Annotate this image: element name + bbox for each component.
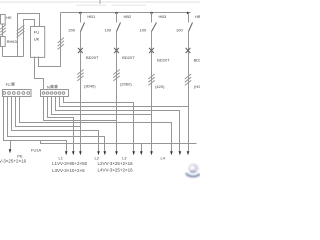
faint title smudge <box>76 5 106 7</box>
svg-text:V-3×25+2×16: V-3×25+2×16 <box>0 159 27 164</box>
svg-text:RH63: RH63 <box>7 39 18 44</box>
svg-text:FU1A: FU1A <box>31 148 42 153</box>
svg-text:HB1: HB1 <box>87 14 96 19</box>
fuse-switch FU box <box>31 27 45 58</box>
terminal strip FC box <box>3 90 32 97</box>
wire fan t2 <box>8 97 105 152</box>
breaker HB3 <box>151 13 153 23</box>
arrow feeder 1 <box>79 151 82 155</box>
3-phase ticks on chain <box>0 25 6 36</box>
arrow L4-2 <box>179 151 182 155</box>
sheet border center tick <box>99 0 101 4</box>
svg-text:HE: HE <box>6 15 12 20</box>
svg-text:(2060): (2060) <box>120 82 132 87</box>
arrow L2-1 <box>97 151 100 155</box>
svg-text:(3040): (3040) <box>84 84 96 89</box>
wire fan r5 <box>60 97 189 107</box>
node HB1 tap <box>79 12 81 14</box>
wire fan t4 <box>16 97 81 127</box>
cable ticks feeder 1 <box>77 70 83 81</box>
wire PE drop <box>10 141 12 150</box>
svg-text:FU: FU <box>34 30 39 35</box>
meter HE box <box>1 15 6 25</box>
bus bar <box>61 12 191 14</box>
fuse X feeder 3 <box>149 48 154 53</box>
node HB2 tap <box>115 12 117 14</box>
3-phase ticks on bus riser <box>58 38 64 50</box>
svg-text:(H2: (H2 <box>194 84 200 89</box>
breaker HB4 <box>188 13 190 23</box>
arrow feeder 2 <box>115 151 118 155</box>
wire fan r4 <box>56 97 180 152</box>
arrow L4-1 <box>170 151 173 155</box>
wire fan r2 <box>48 97 74 152</box>
wire feeder 2 <box>116 32 118 152</box>
svg-text:L1: L1 <box>59 156 64 161</box>
arrow L1-1 <box>65 151 68 155</box>
svg-text:BD20T: BD20T <box>122 55 135 60</box>
svg-text:BD2: BD2 <box>194 58 200 63</box>
cable ticks feeder 3 <box>148 74 154 85</box>
breaker HB2 <box>116 13 118 23</box>
fuse X feeder 1 <box>78 48 83 53</box>
terminals N <box>42 92 65 95</box>
svg-text:L1VV-3×95+2×50: L1VV-3×95+2×50 <box>52 161 88 166</box>
wire fan r3 <box>52 97 152 115</box>
wire feeder 1 <box>80 32 82 152</box>
svg-text:L4: L4 <box>161 156 166 161</box>
wire feeder 4 <box>188 32 190 152</box>
arrow L2-2 <box>104 151 107 155</box>
node HB3 tap <box>150 12 152 14</box>
wire L3-2 stub <box>141 144 143 152</box>
wire fan t5 <box>20 97 172 152</box>
3-phase ticks on loop risers <box>17 25 25 37</box>
wire incoming chain upper <box>2 24 4 37</box>
wire feeder 3 <box>151 32 153 152</box>
fuse X feeder 4 <box>186 48 191 53</box>
wire outer loop riser <box>18 14 40 57</box>
node HB4 tap <box>187 12 189 14</box>
svg-text:HB3: HB3 <box>159 14 168 19</box>
svg-text:200: 200 <box>68 28 75 33</box>
terminals FC <box>3 92 30 95</box>
breaker HB1 <box>80 13 82 23</box>
wire long N line <box>41 141 197 144</box>
arrow feeder 4 <box>187 151 190 155</box>
arrow PE <box>9 149 12 153</box>
svg-text:100: 100 <box>176 28 183 33</box>
svg-text:L3: L3 <box>122 156 127 161</box>
wire PE run t1 <box>4 97 67 152</box>
fuse X feeder 2 <box>114 48 119 53</box>
wire chain lower <box>2 47 4 57</box>
arrow L1-2 <box>72 151 75 155</box>
svg-text:L3VV-3×10+2×6: L3VV-3×10+2×6 <box>52 168 85 173</box>
switch RH63 box <box>1 37 6 47</box>
svg-text:HB4: HB4 <box>195 14 200 19</box>
arrow L3-1 <box>132 151 135 155</box>
svg-text:100: 100 <box>105 28 112 33</box>
wire fan r1 <box>44 97 117 121</box>
svg-text:BD20T: BD20T <box>86 55 99 60</box>
cable ticks feeder 4 <box>185 74 191 85</box>
wire bottom horizontal to loops <box>3 56 24 58</box>
arrow feeder 3 <box>150 151 153 155</box>
svg-text:UK: UK <box>34 37 40 42</box>
svg-text:FC: FC <box>6 82 11 87</box>
wire inner loop riser <box>24 20 35 57</box>
svg-text:HB2: HB2 <box>124 14 133 19</box>
sheet border top line <box>0 1 200 3</box>
svg-text:BD20T: BD20T <box>157 58 170 63</box>
svg-text:L2: L2 <box>95 156 100 161</box>
svg-text:L2VV-3×25+2×16: L2VV-3×25+2×16 <box>98 161 134 166</box>
wire FU output to bus riser <box>39 13 61 67</box>
svg-text:(420): (420) <box>155 84 165 89</box>
svg-text:L4VV-3×25+2×16: L4VV-3×25+2×16 <box>98 167 134 172</box>
wire FU output to N terminal strip <box>35 57 44 90</box>
cable ticks feeder 2 <box>113 70 119 81</box>
arrow L3-2 <box>140 151 143 155</box>
wire fan t3 <box>12 97 99 152</box>
wire fan r6 <box>64 97 134 152</box>
svg-text:N: N <box>47 85 50 90</box>
svg-text:100: 100 <box>140 28 147 33</box>
terminal strip N box <box>41 90 69 97</box>
